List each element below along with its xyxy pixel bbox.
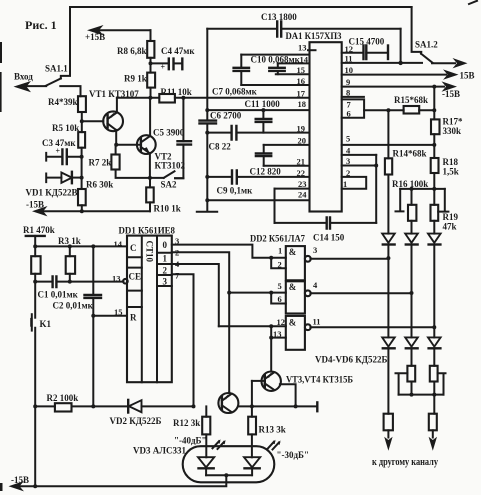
- wire gate3 pin13 loop: [271, 326, 286, 339]
- svg-text:C12 820: C12 820: [250, 167, 282, 177]
- svg-text:SA1.1: SA1.1: [45, 64, 68, 74]
- capacitor C6: [200, 111, 242, 124]
- transistor VT4: [262, 372, 354, 391]
- wire VT1 emitter up: [116, 98, 118, 113]
- node C4 junction: [149, 61, 153, 65]
- pin 13 line: [241, 54, 309, 56]
- pin 24 line: [207, 190, 309, 201]
- svg-text:R6 30k: R6 30k: [86, 180, 113, 190]
- pin 16 line: [241, 76, 309, 86]
- resistor output right column: [429, 414, 437, 438]
- diode VD6: [428, 234, 441, 328]
- relay contact K1: [31, 282, 51, 407]
- input terminal bar R1: [23, 225, 55, 246]
- diode VD row2 left: [382, 337, 395, 413]
- arrow to other channel right: [429, 437, 437, 451]
- svg-text:DD2 К561ЛА7: DD2 К561ЛА7: [250, 235, 305, 245]
- svg-text:R4*39k: R4*39k: [48, 97, 78, 107]
- svg-text:VD2 КД522Б: VD2 КД522Б: [110, 416, 162, 426]
- wire gate3 input: [219, 325, 271, 327]
- svg-text:6: 6: [347, 109, 351, 119]
- svg-text:C14 150: C14 150: [313, 233, 345, 243]
- svg-text:КТ3102: КТ3102: [155, 161, 186, 171]
- pin 9 line power -15V arrow: [342, 77, 460, 99]
- transistor VT1: [89, 89, 139, 131]
- resistor R3: [58, 236, 81, 282]
- svg-text:SA1.2: SA1.2: [415, 40, 438, 50]
- node C2 R2 junction: [91, 404, 95, 408]
- diode VD row2 right: [428, 337, 441, 365]
- wire gate3 pin13 to VT4 collector: [270, 338, 272, 372]
- wire R5 to R6: [81, 148, 83, 189]
- pin 2 output wire DD1: [172, 248, 229, 393]
- svg-text:-15В: -15В: [26, 200, 44, 210]
- pin 15 line: [276, 65, 310, 75]
- resistor R8: [117, 30, 154, 58]
- svg-text:3: 3: [346, 156, 350, 166]
- svg-text:R3 1k: R3 1k: [58, 236, 81, 246]
- node bus pin24 junction: [205, 198, 209, 202]
- svg-text:14: 14: [300, 55, 309, 65]
- svg-text:R19: R19: [443, 212, 459, 222]
- wire gate1 pin1: [271, 246, 286, 258]
- op-amp/IC DA1 К157ХП3 body: [286, 32, 342, 212]
- counter DD1 К561ИЕ8 body: [119, 227, 176, 383]
- node rail junction: [33, 484, 37, 488]
- svg-text:15В: 15В: [460, 71, 475, 81]
- svg-text:330k: 330k: [443, 126, 462, 136]
- svg-text:1,5k: 1,5k: [443, 167, 459, 177]
- wiper tap R19: [438, 189, 448, 212]
- node bracket right junction: [432, 393, 436, 397]
- svg-text:22: 22: [297, 168, 306, 178]
- svg-text:R14*68k: R14*68k: [393, 149, 427, 159]
- svg-text:20: 20: [298, 136, 307, 146]
- node gate3 output junction: [432, 325, 436, 329]
- trimmer resistor on vertical3: [430, 366, 446, 395]
- resistor R17: [431, 87, 463, 158]
- node VT3 emitter R13 junction: [250, 404, 254, 408]
- svg-text:0: 0: [163, 240, 168, 250]
- wire R8 to R9: [150, 58, 152, 73]
- wire top rail: [70, 6, 412, 8]
- pin 10 line power 15V arrow: [342, 65, 475, 81]
- resistor R12: [173, 406, 210, 457]
- wiper tap R16: [396, 189, 404, 212]
- node gate2 pin5 junction: [269, 291, 273, 295]
- figure caption: [25, 18, 57, 32]
- node VT1 collector / VT2 base junction: [114, 143, 118, 147]
- svg-text:Рис. 1: Рис. 1: [25, 18, 57, 32]
- pin 11 line: [342, 54, 422, 64]
- label -30dB: [277, 450, 310, 460]
- node R2 left junction: [33, 404, 37, 408]
- wire gate3 pin12: [271, 317, 286, 327]
- wire SA1.1 throw to R4: [60, 86, 80, 96]
- node VT4 emitter junction: [294, 404, 298, 408]
- svg-text:1: 1: [163, 254, 168, 264]
- svg-text:R10 1k: R10 1k: [154, 204, 181, 214]
- power -15V bottom arrow: [9, 475, 30, 491]
- wire vertical2 to lower diode: [411, 293, 413, 337]
- resistor R9: [124, 73, 155, 98]
- node bus pin19 junction: [205, 131, 209, 135]
- wire LED common cathode: [206, 474, 252, 476]
- svg-text:&: &: [289, 282, 297, 292]
- label to other channel: [372, 457, 438, 468]
- node R15 left junction: [386, 108, 390, 112]
- diode VD4: [382, 234, 395, 259]
- node LED cathode junction: [224, 473, 228, 477]
- wire gate2 pin6 loop: [271, 293, 286, 304]
- wire R19 to diode VD6: [433, 221, 435, 234]
- svg-text:VD1 КД522В: VD1 КД522В: [26, 188, 78, 198]
- node bus pin22 junction: [205, 175, 209, 179]
- logic gate DD2.1: [250, 235, 305, 281]
- svg-text:11: 11: [345, 54, 353, 64]
- svg-text:C5 3900: C5 3900: [153, 128, 185, 138]
- resistor R10: [146, 178, 181, 214]
- svg-text:C6 2700: C6 2700: [210, 111, 242, 121]
- wire VT1 base: [82, 120, 104, 122]
- wire VT2 collector up: [149, 98, 151, 136]
- pin 4 output wire DD1: [172, 259, 219, 326]
- node bracket left junction: [410, 393, 414, 397]
- svg-text:5: 5: [346, 134, 350, 144]
- diode VD5: [405, 234, 418, 293]
- label -40dB: [174, 436, 207, 446]
- resistor R1: [31, 246, 40, 281]
- svg-text:VD4-VD6 КД522Б: VD4-VD6 КД522Б: [315, 355, 387, 365]
- wire pin23 down to C14: [274, 189, 276, 223]
- svg-text:R7 2k: R7 2k: [89, 158, 112, 168]
- pins 2-1 loop: [342, 168, 367, 189]
- node R16 top junction: [410, 187, 414, 191]
- light arrows LED2: [268, 440, 281, 450]
- resistor R6: [78, 180, 113, 206]
- pin 3 output wire DD1: [172, 236, 271, 258]
- pin 13 stub: [298, 43, 316, 53]
- pin 23 line: [275, 179, 310, 189]
- svg-text:к другому каналу: к другому каналу: [372, 457, 438, 468]
- svg-text:3: 3: [163, 277, 168, 287]
- wire R16 to diode VD5: [411, 221, 413, 234]
- pin 15 wire DD1 R: [93, 307, 127, 317]
- svg-text:9: 9: [346, 77, 350, 87]
- svg-text:5: 5: [278, 281, 282, 291]
- svg-text:R18: R18: [443, 157, 459, 167]
- svg-text:+15В: +15В: [85, 32, 105, 42]
- pin 8 stub: [342, 88, 364, 98]
- svg-text:R17*: R17*: [443, 117, 463, 127]
- pin 19 line with capacitor C8: [207, 124, 309, 152]
- svg-text:C2 0,01мк: C2 0,01мк: [53, 301, 94, 311]
- light arrows LED1: [213, 439, 226, 449]
- switch SA1.1: [45, 7, 70, 86]
- svg-text:VT3,VT4 КТ315Б: VT3,VT4 КТ315Б: [286, 375, 353, 385]
- svg-text:15: 15: [297, 65, 306, 75]
- capacitor C14: [275, 218, 377, 243]
- node bus pin18 junction: [205, 108, 209, 112]
- node VT2 emitter junction: [148, 176, 152, 180]
- svg-text:Вход: Вход: [14, 72, 33, 82]
- svg-text:2: 2: [175, 248, 179, 258]
- node pin5 R18 junction: [432, 143, 436, 147]
- capacitor C12 chain: [256, 145, 271, 166]
- power -15V left arrow: [26, 200, 150, 217]
- node pin11 C13 junction: [398, 61, 402, 65]
- wire C13 to pin11: [400, 29, 402, 63]
- bus bottom terminal: [197, 200, 217, 212]
- svg-text:+: +: [161, 63, 166, 72]
- LED display VD3 АЛС331 body: [133, 446, 274, 483]
- svg-text:13: 13: [298, 43, 307, 53]
- pin 17 label: [297, 89, 306, 99]
- wire pins 7-6 to R15: [364, 109, 434, 111]
- wire VT2 emitter down: [149, 153, 151, 178]
- pin 13 wire DD1 CE with capacitor C1: [35, 274, 123, 300]
- svg-text:R: R: [130, 313, 137, 323]
- svg-text:3: 3: [313, 245, 317, 255]
- node Вход input arrow: [14, 72, 47, 93]
- svg-text:R16 100k: R16 100k: [392, 179, 428, 189]
- resistor R2: [35, 393, 128, 412]
- LED segment 2: [244, 457, 260, 475]
- svg-text:VD3 АЛС331: VD3 АЛС331: [133, 446, 186, 456]
- node R1 top junction: [33, 244, 37, 248]
- svg-text:21: 21: [297, 157, 306, 167]
- node R3 bottom junction: [68, 280, 72, 284]
- wire R6 to -15V rail: [81, 205, 83, 211]
- svg-text:СТ10: СТ10: [144, 241, 154, 263]
- node gate1 input junction: [269, 256, 273, 260]
- bubble gate2 output: [305, 290, 311, 296]
- pin 21 line: [264, 157, 310, 167]
- pin 20 line: [264, 136, 310, 146]
- pin 12 line: [342, 44, 363, 54]
- inversion bubble DD1 CE: [123, 279, 128, 284]
- wire R4 to R5: [81, 112, 83, 132]
- pin 14 wire DD1 clock: [35, 239, 127, 249]
- svg-text:1: 1: [278, 246, 282, 256]
- svg-text:R13 3k: R13 3k: [259, 425, 286, 435]
- node -15V R17 junction: [432, 85, 436, 89]
- wire vertical1 to lower diode: [387, 258, 389, 337]
- wire C2 down to R2 line: [92, 316, 94, 407]
- power +15V arrow: [85, 25, 151, 42]
- capacitor C15: [349, 37, 389, 60]
- svg-text:C11 1000: C11 1000: [245, 99, 281, 109]
- svg-text:16: 16: [297, 76, 306, 86]
- diode VD1: [26, 172, 82, 198]
- node C2 top junction: [91, 244, 95, 248]
- wire gate3 output: [310, 317, 434, 328]
- svg-text:DD1 К561ИЕ8: DD1 К561ИЕ8: [119, 227, 176, 237]
- resistor R5: [52, 123, 85, 148]
- svg-text:19: 19: [297, 124, 306, 134]
- node -15V rail junction: [80, 209, 84, 213]
- wire VT1 collector down: [115, 130, 117, 145]
- node C3 junction: [80, 155, 84, 159]
- node gate2 output junction: [410, 291, 414, 295]
- svg-text:&: &: [289, 318, 297, 328]
- capacitor C3: [42, 138, 82, 164]
- svg-text:13: 13: [112, 274, 121, 284]
- wire gate2 pin5: [271, 281, 286, 293]
- svg-text:C9 0,1мк: C9 0,1мк: [217, 186, 254, 196]
- pins 7-6 loop: [342, 99, 364, 118]
- pin 14 line: [278, 55, 310, 65]
- bubble gate3 output: [305, 324, 311, 330]
- diode VD row2 middle: [405, 337, 418, 365]
- resistor R4: [48, 96, 86, 112]
- label VD4-VD6: [315, 355, 387, 365]
- node gate2 input junction: [227, 291, 231, 295]
- wire gate2 output: [310, 280, 411, 293]
- capacitor C7 chain: [212, 55, 258, 97]
- node gate3 pin12 junction: [269, 324, 273, 328]
- wire gate1 pin2 loop: [271, 258, 286, 270]
- wire gate2 input: [229, 292, 271, 294]
- svg-text:15: 15: [114, 307, 123, 317]
- svg-text:2: 2: [278, 260, 282, 270]
- wire K1 down to -15V rail: [34, 406, 36, 486]
- node gate1 output junction: [386, 256, 390, 260]
- node VD1 junction: [80, 176, 84, 180]
- svg-text:3: 3: [175, 236, 179, 246]
- diode VD2: [110, 400, 194, 426]
- wire trimmer bottom bracket: [399, 394, 444, 396]
- svg-text:13: 13: [273, 329, 282, 339]
- pin 18 line: [207, 99, 309, 110]
- scan artifact top right: [469, 1, 477, 4]
- node VT1 base junction: [80, 119, 84, 123]
- svg-text:"-40дБ": "-40дБ": [174, 436, 207, 446]
- svg-text:&: &: [289, 247, 297, 257]
- resistor output left column: [384, 414, 393, 438]
- switch SA1.2: [412, 7, 439, 63]
- transistor VT2: [137, 135, 186, 170]
- svg-text:-15В: -15В: [11, 475, 29, 485]
- logic gate DD2.3: [286, 316, 305, 350]
- svg-text:8: 8: [346, 88, 350, 98]
- wire VT3 right to terminal: [238, 402, 317, 411]
- pin 4 line: [342, 146, 377, 156]
- capacitor C10: [251, 55, 301, 75]
- arrow to other channel left: [384, 437, 392, 451]
- node R3 top junction: [68, 244, 72, 248]
- capacitor C2: [53, 246, 102, 315]
- svg-text:2: 2: [346, 168, 350, 178]
- node VD2 VT3 base junction: [192, 404, 196, 408]
- svg-text:K1: K1: [40, 319, 52, 329]
- svg-text:47k: 47k: [443, 222, 457, 232]
- pin 5 line: [342, 134, 435, 145]
- wire VT3 collector up: [228, 392, 230, 394]
- node R18 bottom junction: [432, 187, 436, 191]
- svg-text:C7 0,068мк: C7 0,068мк: [212, 87, 258, 97]
- resistor R14: [385, 110, 427, 174]
- wire cathode to -15V rail: [20, 475, 226, 486]
- pin 3 line: [342, 156, 377, 166]
- svg-text:DA1 К157ХП3: DA1 К157ХП3: [286, 32, 342, 42]
- svg-text:14: 14: [114, 239, 123, 249]
- wire VT4 base net down to R13: [251, 381, 253, 417]
- bubble gate1 output: [305, 256, 311, 262]
- svg-text:R9 1k: R9 1k: [124, 74, 147, 84]
- wire R7 bottom rail: [116, 170, 164, 178]
- pin 22 line with capacitor C9: [207, 167, 309, 196]
- svg-text:R2 100k: R2 100k: [47, 393, 79, 403]
- wire VT4 base: [252, 380, 265, 382]
- svg-text:6: 6: [278, 294, 282, 304]
- resistor R19: [431, 189, 459, 232]
- svg-text:"-30дБ": "-30дБ": [277, 450, 310, 460]
- wire vertical3 down: [433, 395, 435, 414]
- svg-text:SA2: SA2: [161, 180, 178, 190]
- wire VT2 base: [116, 144, 141, 146]
- svg-text:17: 17: [297, 89, 306, 99]
- svg-text:23: 23: [298, 179, 307, 189]
- svg-text:R5 10k: R5 10k: [52, 123, 79, 133]
- svg-text:11: 11: [313, 317, 321, 327]
- wire vertical3 to lower diode: [433, 327, 435, 337]
- svg-text:R15*68k: R15*68k: [394, 95, 428, 105]
- svg-text:C: C: [130, 243, 137, 253]
- bus vertical with C6: [206, 29, 208, 200]
- node C2 pin15 junction: [91, 314, 95, 318]
- capacitor C11 chain: [245, 99, 281, 133]
- svg-text:C8 22: C8 22: [209, 142, 232, 152]
- svg-text:R8 6,8k: R8 6,8k: [117, 46, 147, 56]
- svg-text:1: 1: [343, 179, 347, 189]
- svg-text:2: 2: [163, 266, 168, 276]
- svg-text:C15 4700: C15 4700: [349, 37, 385, 47]
- wire VT4 emitter: [280, 384, 296, 406]
- output arrow top right: [432, 58, 468, 68]
- svg-text:12: 12: [277, 317, 286, 327]
- node C11 junction: [261, 108, 265, 112]
- scan artifact left edge: [0, 42, 3, 491]
- svg-text:C10 0,068мк: C10 0,068мк: [251, 55, 301, 65]
- svg-text:-15В: -15В: [442, 89, 460, 99]
- resistor R11: [159, 87, 191, 103]
- node R9 bottom junction: [148, 96, 152, 100]
- svg-text:R1 470k: R1 470k: [23, 225, 55, 235]
- svg-text:10: 10: [345, 65, 354, 75]
- resistor R13: [248, 417, 286, 458]
- transistor VT3: [218, 393, 238, 413]
- resistor R18: [431, 157, 459, 189]
- node pin3 junction: [374, 164, 378, 168]
- switch SA2: [161, 171, 184, 189]
- svg-text:C3 47мк: C3 47мк: [42, 138, 76, 148]
- node R1 bottom junction: [33, 280, 37, 284]
- wire trimmer tap rail: [400, 188, 445, 190]
- resistor R15: [394, 95, 428, 114]
- wire main line to DA1 pin17: [117, 97, 310, 99]
- trimmer resistor on vertical2: [396, 366, 416, 395]
- svg-text:18: 18: [298, 99, 307, 109]
- capacitor C4: [151, 46, 196, 72]
- svg-text:R12 3k: R12 3k: [173, 418, 200, 428]
- svg-text:C13 1800: C13 1800: [261, 12, 297, 22]
- svg-text:C4 47мк: C4 47мк: [161, 46, 195, 56]
- svg-text:C1 0,01мк: C1 0,01мк: [38, 290, 79, 300]
- LED segment 1: [198, 457, 214, 475]
- node gate3 pin13 junction: [269, 336, 273, 340]
- pin 7 output wire DD1: [172, 271, 194, 407]
